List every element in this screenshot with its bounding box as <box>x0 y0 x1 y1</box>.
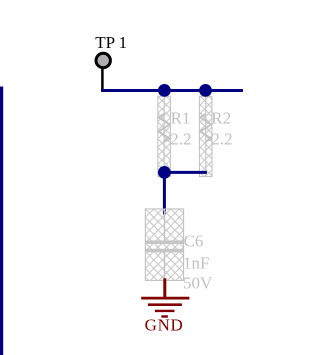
svg-text:R2: R2 <box>211 109 231 128</box>
test point TP1 pin <box>101 68 104 92</box>
svg-text:TP 1: TP 1 <box>95 33 127 52</box>
wire (left vertical bus, net to lower-left) <box>0 87 3 355</box>
svg-text:1nF: 1nF <box>183 253 209 272</box>
resistor R1 body <box>158 96 171 177</box>
svg-text:R1: R1 <box>171 109 191 128</box>
svg-text:C6: C6 <box>184 231 204 250</box>
svg-text:50V: 50V <box>183 274 213 293</box>
ground GND symbol <box>141 298 189 316</box>
svg-text:2.2: 2.2 <box>170 130 191 149</box>
junction dot at R2 top <box>199 84 212 97</box>
wire (bottom horizontal between R1 and R2) <box>164 171 207 174</box>
test point TP1 pad <box>96 53 110 67</box>
resistor R2 body <box>199 96 212 176</box>
junction dot at R1 bottom <box>158 166 171 179</box>
svg-text:2.2: 2.2 <box>211 130 232 149</box>
wire (GND net, red vertical) <box>163 278 166 297</box>
capacitor C6 body <box>145 209 183 281</box>
wire (vertical from junction down to C6) <box>163 172 166 214</box>
wire (top horizontal net) <box>101 89 243 92</box>
svg-text:GND: GND <box>145 316 184 335</box>
junction dot at R1 top <box>158 84 171 97</box>
